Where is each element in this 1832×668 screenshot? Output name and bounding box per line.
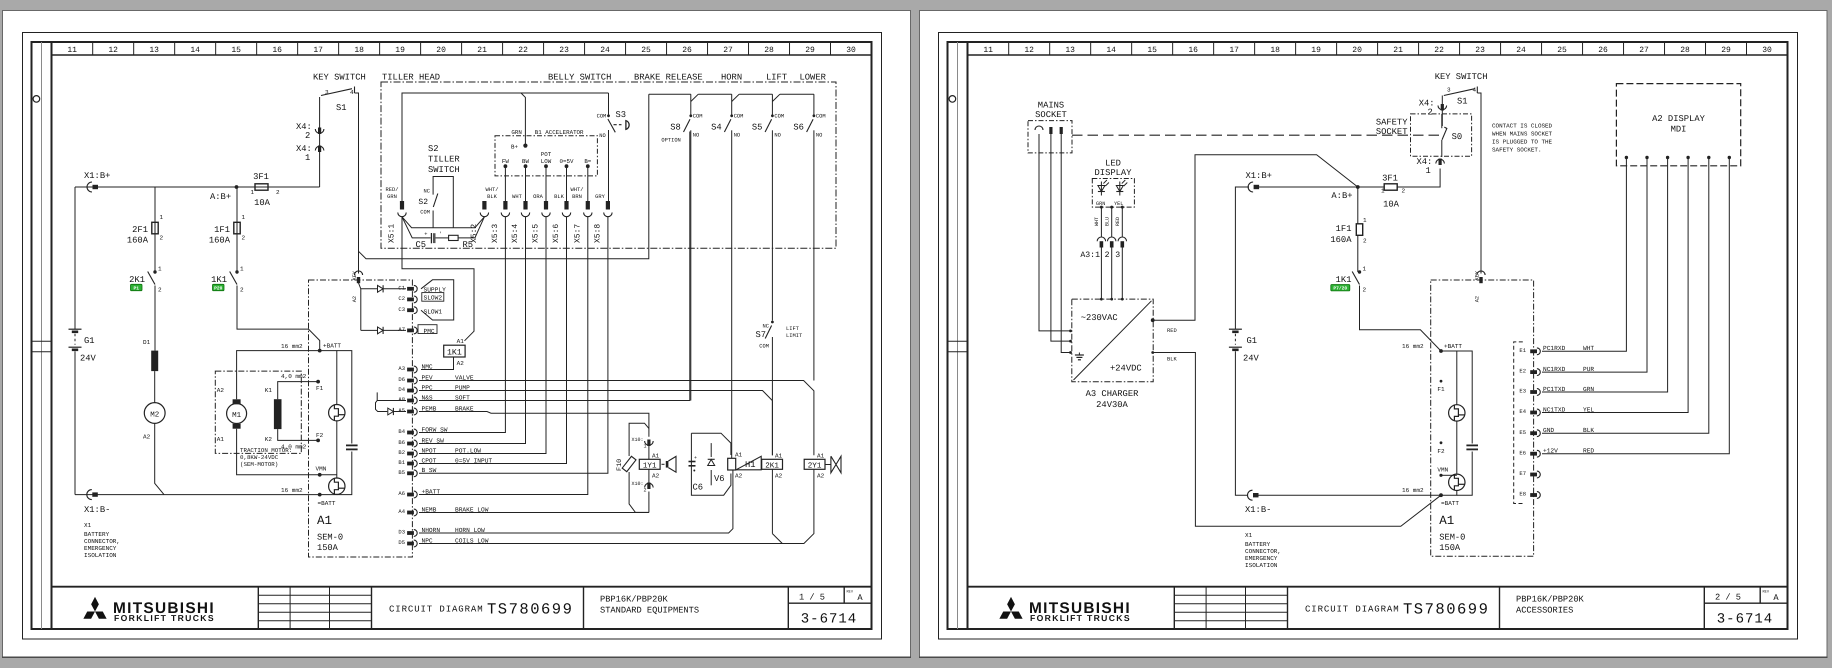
svg-text:~230VAC: ~230VAC <box>1081 313 1118 323</box>
traction motor dashed box <box>215 371 301 453</box>
label 16 mm2 (page2 bottom) <box>1402 487 1424 494</box>
svg-text:P7/20: P7/20 <box>1333 286 1347 292</box>
wire NPC coils bus <box>419 469 814 544</box>
svg-text:WHT: WHT <box>1094 217 1100 226</box>
svg-text:25: 25 <box>641 46 651 55</box>
svg-text:RED: RED <box>1115 217 1121 226</box>
svg-text:NO: NO <box>816 133 822 139</box>
label ~230VAC <box>1081 313 1118 323</box>
label A3 CHARGER 24V30A <box>1086 389 1140 410</box>
connector X4:2 (page2) <box>1419 99 1447 118</box>
svg-text:1: 1 <box>242 214 246 221</box>
svg-text:WHT/: WHT/ <box>486 187 499 193</box>
svg-text:X1:B+: X1:B+ <box>1246 171 1272 181</box>
node F1 terminal <box>316 380 324 392</box>
page 2 Mitsubishi logo <box>999 597 1131 623</box>
note X1 battery connector <box>84 522 120 559</box>
svg-text:4: 4 <box>1473 87 1477 94</box>
label M2 A2 <box>143 434 151 441</box>
dashed link mains to safety socket <box>1072 134 1441 136</box>
svg-text:D6: D6 <box>398 376 405 383</box>
node +BATT (page2) <box>1439 343 1462 353</box>
svg-text:E6: E6 <box>1519 449 1526 456</box>
wire NEMB to 1Y1 return <box>419 512 649 514</box>
svg-text:WHT: WHT <box>512 194 522 200</box>
svg-text:BRAKE RELEASE: BRAKE RELEASE <box>634 73 703 83</box>
svg-text:30: 30 <box>846 46 856 55</box>
wire B+ bus from X1:B+ to key switch riser <box>75 97 320 187</box>
svg-text:28: 28 <box>1680 46 1690 55</box>
svg-text:X5:1: X5:1 <box>388 224 397 243</box>
svg-text:A1: A1 <box>775 452 783 459</box>
wire 1K1 coil A2 to NMC <box>421 357 454 370</box>
relay coil 2K1 (solenoid) <box>762 452 783 479</box>
svg-text:A2: A2 <box>1475 296 1481 302</box>
label SAFETY SOCKET <box>1376 118 1408 138</box>
svg-text:NO: NO <box>774 133 780 139</box>
svg-text:X5:5: X5:5 <box>532 224 541 243</box>
svg-text:15: 15 <box>231 46 241 55</box>
diode V6 <box>708 443 725 485</box>
svg-text:1: 1 <box>643 444 646 450</box>
wires LED to A3 connector <box>1094 206 1124 238</box>
accelerator pins FW/BW/POT LOW/0=5V/B= <box>502 151 592 201</box>
svg-text:20: 20 <box>436 46 446 55</box>
svg-text:F1: F1 <box>1437 386 1445 393</box>
svg-text:1K1: 1K1 <box>1336 275 1352 285</box>
svg-text:KEY SWITCH: KEY SWITCH <box>313 73 366 83</box>
svg-text:D3: D3 <box>398 529 405 536</box>
svg-text:R5: R5 <box>463 240 474 250</box>
wire A6 to X5:7 <box>419 217 588 495</box>
label 16 mm2 (page2 top) <box>1402 343 1424 350</box>
svg-text:X10:: X10: <box>631 481 643 487</box>
svg-text:COM: COM <box>759 344 769 350</box>
svg-text:COM: COM <box>420 210 430 216</box>
svg-text:26: 26 <box>1598 46 1608 55</box>
transistor Q2 (page2 bottom MOSFET) <box>1449 474 1465 490</box>
controller A1 dashed box (page1) <box>309 280 413 557</box>
svg-text:A1: A1 <box>735 451 743 458</box>
node VMN <box>316 466 337 477</box>
svg-text:3F1: 3F1 <box>1382 174 1398 184</box>
svg-text:16 mm2: 16 mm2 <box>1402 487 1424 494</box>
svg-text:A8: A8 <box>398 396 405 403</box>
svg-text:D1: D1 <box>143 339 151 346</box>
page 1 title block <box>52 587 872 630</box>
svg-text:COM: COM <box>693 114 703 120</box>
connector X4:1 (page2) <box>1417 157 1445 176</box>
svg-text:LIFT: LIFT <box>766 73 787 83</box>
page 2 ruler <box>968 42 1788 55</box>
switch S7 lift limit <box>755 321 803 456</box>
svg-text:TILLER: TILLER <box>428 155 460 165</box>
svg-text:160A: 160A <box>127 236 149 246</box>
svg-text:A: A <box>1773 593 1779 603</box>
tiller head dashed box <box>381 82 836 248</box>
svg-text:1: 1 <box>1363 266 1367 273</box>
svg-text:REV: REV <box>847 589 854 594</box>
svg-text:16: 16 <box>1188 46 1198 55</box>
svg-text:': ' <box>439 232 442 238</box>
svg-text:1Y1: 1Y1 <box>643 462 657 470</box>
contactor contact 1K1 (page2) <box>1331 266 1367 294</box>
A2 display dashed box <box>1616 84 1740 166</box>
svg-text:KEY: KEY <box>1475 270 1481 280</box>
svg-text:EMERGENCY: EMERGENCY <box>1245 555 1278 562</box>
wire tiller head top bus <box>402 93 609 201</box>
svg-text:BELLY SWITCH: BELLY SWITCH <box>548 73 611 83</box>
svg-text:2: 2 <box>160 235 164 242</box>
horn H1 <box>728 451 762 479</box>
wire 1K1 to +BATT (page2) <box>1360 286 1442 352</box>
wire M1.A1 to VMN <box>237 429 320 475</box>
page 2 sheet <box>919 11 1828 658</box>
svg-text:BLK: BLK <box>554 194 564 200</box>
svg-text:13: 13 <box>1065 46 1075 55</box>
svg-text:NMC: NMC <box>422 363 433 370</box>
svg-text:S7: S7 <box>755 330 766 340</box>
svg-text:150A: 150A <box>317 543 339 553</box>
contactor contact 2K1 <box>129 266 162 294</box>
controller A1 dashed box (page2) <box>1431 280 1534 556</box>
svg-text:X1:B-: X1:B- <box>1245 505 1271 515</box>
svg-text:SLOW2: SLOW2 <box>424 295 443 302</box>
svg-text:21: 21 <box>477 46 487 55</box>
svg-text:FORKLIFT TRUCKS: FORKLIFT TRUCKS <box>114 613 215 623</box>
svg-text:B5: B5 <box>398 469 405 476</box>
svg-text:1: 1 <box>305 153 310 163</box>
svg-text:A2: A2 <box>735 473 743 480</box>
svg-text:4,0 mm2: 4,0 mm2 <box>281 444 307 451</box>
wire B2 to X5:5 <box>419 217 546 454</box>
switch S2 tiller <box>418 177 453 228</box>
battery G1 (page1) <box>69 329 97 363</box>
page 2 margin strip <box>947 42 967 629</box>
svg-text:V6: V6 <box>714 474 725 484</box>
label 16 mm2 bottom <box>281 487 303 494</box>
label GRN / B1 ACCELERATOR <box>511 129 584 136</box>
svg-text:NC: NC <box>424 189 430 195</box>
label B+ <box>511 144 518 151</box>
node A:B+ (page2) <box>1331 185 1359 201</box>
connector X1:B- (page2) <box>1245 490 1271 515</box>
svg-text:1: 1 <box>158 266 162 273</box>
svg-text:BLK: BLK <box>1167 357 1177 363</box>
svg-text:11: 11 <box>67 46 77 55</box>
svg-text:E2: E2 <box>1519 368 1526 375</box>
svg-text:H1: H1 <box>745 460 756 470</box>
wires A3 connector to charger <box>1100 248 1124 301</box>
wire B6 to X5:4 <box>419 217 526 444</box>
svg-text:A:B+: A:B+ <box>210 192 231 202</box>
svg-text:A2: A2 <box>217 387 225 394</box>
svg-text:2Y1: 2Y1 <box>808 461 822 470</box>
svg-text:VMN: VMN <box>316 466 327 473</box>
node +BATT (page1) <box>318 343 342 353</box>
svg-text:1K1: 1K1 <box>211 275 227 285</box>
wire A:B+ down (page2) <box>1357 187 1359 272</box>
svg-text:17: 17 <box>1229 46 1239 55</box>
svg-text:X1: X1 <box>1245 532 1253 539</box>
valve coil 2Y1 <box>804 452 825 479</box>
svg-text:CONTACT IS CLOSED: CONTACT IS CLOSED <box>1492 123 1553 130</box>
wire X4:1 to 3F1 (page2) <box>1397 169 1440 188</box>
diode D1 <box>143 339 158 371</box>
page 2 outer border <box>939 33 1798 640</box>
svg-text:TS780699: TS780699 <box>1403 601 1489 619</box>
svg-text:24V30A: 24V30A <box>1096 400 1128 410</box>
svg-text:160A: 160A <box>209 236 231 246</box>
svg-text:2: 2 <box>1363 238 1367 245</box>
connector pins E1-E8 <box>1519 345 1594 498</box>
svg-text:3: 3 <box>1115 251 1120 260</box>
svg-text:24: 24 <box>600 46 610 55</box>
svg-text:2F1: 2F1 <box>132 225 148 235</box>
wire S8 leg <box>690 132 692 401</box>
wire 1F1 branch <box>237 187 320 351</box>
svg-text:2: 2 <box>242 235 246 242</box>
svg-text:A:B+: A:B+ <box>1331 191 1352 201</box>
svg-text:A2: A2 <box>652 472 660 479</box>
svg-text:21: 21 <box>1393 46 1403 55</box>
svg-text:2: 2 <box>240 287 244 294</box>
note X1 battery connector (page2) <box>1245 532 1281 569</box>
svg-text:1F1: 1F1 <box>1336 224 1352 234</box>
svg-text:B1: B1 <box>398 459 405 466</box>
svg-text:BATTERY: BATTERY <box>84 531 110 538</box>
diode to C1 <box>378 285 384 292</box>
svg-text:GRN: GRN <box>387 194 397 200</box>
connector X4:1 (page1) <box>296 144 324 163</box>
controller A1 pin row (page1) <box>398 284 492 547</box>
svg-text:A3: A3 <box>398 365 405 372</box>
LED symbols <box>1096 180 1127 207</box>
page 1 Mitsubishi logo <box>83 597 215 623</box>
svg-text:COM: COM <box>734 114 744 120</box>
wire diode row C1 <box>361 288 406 290</box>
svg-text:14: 14 <box>1106 46 1116 55</box>
wire diode row A7 <box>361 329 406 331</box>
svg-text:14: 14 <box>190 46 200 55</box>
svg-text:2: 2 <box>158 287 162 294</box>
connector X1:B- <box>84 490 110 515</box>
transistor Q1 (page2 top MOSFET) <box>1449 405 1465 421</box>
svg-text:23: 23 <box>1475 46 1485 55</box>
label K1 <box>265 387 273 394</box>
wire X1:B+ bus (page2) <box>1235 187 1357 329</box>
field winding K1-K2 <box>274 399 282 429</box>
section labels top (page1) <box>313 73 827 83</box>
svg-text:M1: M1 <box>232 412 242 420</box>
node F2 terminal <box>316 432 324 442</box>
svg-text:16 mm2: 16 mm2 <box>1402 343 1424 350</box>
svg-text:F1: F1 <box>316 385 324 392</box>
svg-text:+BATT: +BATT <box>1444 343 1462 350</box>
ground symbol in charger <box>1075 353 1084 360</box>
label +24VDC <box>1110 364 1142 374</box>
svg-text:A2: A2 <box>775 473 783 480</box>
svg-text:KEY SWITCH: KEY SWITCH <box>1435 72 1488 82</box>
svg-text:18: 18 <box>1270 46 1280 55</box>
relay coil 1K1 <box>444 338 465 367</box>
svg-text:2: 2 <box>276 189 280 196</box>
svg-text:DISPLAY: DISPLAY <box>1095 168 1133 178</box>
svg-text:(SEM-MOTOR): (SEM-MOTOR) <box>240 461 278 468</box>
svg-text:S1: S1 <box>1457 97 1468 107</box>
svg-text:27: 27 <box>723 46 733 55</box>
svg-text:26: 26 <box>682 46 692 55</box>
wire colors above X5 <box>386 187 606 200</box>
svg-text:4,0 mm2: 4,0 mm2 <box>281 373 307 380</box>
svg-text:17: 17 <box>313 46 323 55</box>
svg-text:S4: S4 <box>711 123 722 133</box>
mains socket dashed box <box>1028 121 1072 153</box>
svg-text:C5: C5 <box>416 240 427 250</box>
page 2 drawing frame <box>948 42 1788 629</box>
svg-text:C1: C1 <box>398 284 405 291</box>
wire M1.A2 to +BATT <box>237 351 321 400</box>
label S2 TILLER SWITCH <box>428 144 460 175</box>
svg-text:CIRCUIT DIAGRAM: CIRCUIT DIAGRAM <box>389 605 484 615</box>
svg-text:A2: A2 <box>457 360 465 367</box>
charger A3 dashed box <box>1072 299 1153 382</box>
mains socket contacts <box>1035 126 1063 134</box>
svg-text:P20: P20 <box>214 285 223 291</box>
svg-text:A3 CHARGER: A3 CHARGER <box>1086 389 1140 399</box>
svg-text:POT: POT <box>541 151 552 158</box>
connector X1:B+ <box>84 171 110 192</box>
connector KEY into A1 (page1) <box>352 270 363 302</box>
svg-text:COM: COM <box>816 114 826 120</box>
svg-text:12: 12 <box>108 46 118 55</box>
label A1 (page2) <box>1439 514 1454 528</box>
page 2 title text <box>1305 589 1779 627</box>
svg-text:S6: S6 <box>793 123 804 133</box>
connector X10:1 <box>631 437 653 450</box>
svg-text:FW: FW <box>502 158 509 165</box>
fuse 2F1 <box>127 214 164 246</box>
svg-text:1: 1 <box>240 266 244 273</box>
svg-text:SEM-0: SEM-0 <box>317 533 343 543</box>
capacitor (page2) <box>1466 445 1478 449</box>
svg-text:A5: A5 <box>398 407 405 414</box>
svg-text:3: 3 <box>325 89 329 96</box>
svg-text:A2 DISPLAY: A2 DISPLAY <box>1652 114 1706 124</box>
wire MOSFET chain (page2) <box>1441 351 1472 495</box>
key switch S1 (page2) <box>1444 87 1478 107</box>
svg-text:M2: M2 <box>150 410 159 419</box>
svg-text:A2: A2 <box>817 473 825 480</box>
svg-text:E8: E8 <box>1519 491 1526 498</box>
fuse 3F1 <box>251 172 281 208</box>
node VMN (page2) <box>1437 466 1456 477</box>
wire KEY riser to belly-switch bus feeder <box>359 94 649 259</box>
svg-text:SWITCH: SWITCH <box>428 165 460 175</box>
page 1 sheet <box>2 11 911 658</box>
svg-text:EMERGENCY: EMERGENCY <box>84 545 117 552</box>
wire KEY pellet to diode rows <box>359 283 361 330</box>
svg-text:G1: G1 <box>1247 336 1258 346</box>
connectors X5:1-X5:8 <box>388 201 612 243</box>
wire PEMB to 1Y1 <box>419 412 649 437</box>
wire accelerator B+ drop <box>521 93 528 148</box>
svg-text:D4: D4 <box>398 386 405 393</box>
wire PPC to 2K1 <box>419 391 772 401</box>
suppressor network outline C6 <box>691 433 731 495</box>
svg-text:1 / 5: 1 / 5 <box>799 593 825 603</box>
svg-text:E4: E4 <box>1519 408 1526 415</box>
svg-text:RED: RED <box>1167 328 1177 334</box>
svg-text:X1: X1 <box>84 522 92 529</box>
svg-text:KEY: KEY <box>352 270 358 280</box>
svg-text:STANDARD EQUIPMENTS: STANDARD EQUIPMENTS <box>600 606 699 616</box>
svg-text:150A: 150A <box>1439 543 1461 553</box>
svg-text:23: 23 <box>559 46 569 55</box>
svg-text:K1: K1 <box>265 387 273 394</box>
svg-text:BATTERY: BATTERY <box>1245 541 1271 548</box>
node A:B+ <box>210 185 238 202</box>
svg-text:C3: C3 <box>398 306 405 313</box>
svg-text:E5: E5 <box>1519 429 1526 436</box>
label MAINS SOCKET <box>1035 101 1067 121</box>
wire G1 to X1:B- (page2) <box>1235 351 1248 495</box>
fuse 3F1 (page2) <box>1381 174 1406 210</box>
svg-text:2: 2 <box>1363 287 1367 294</box>
svg-text:2: 2 <box>1428 108 1433 118</box>
wire B1 to X5:6 <box>419 217 567 464</box>
svg-text:+24VDC: +24VDC <box>1110 364 1142 374</box>
svg-text:A1: A1 <box>317 514 332 528</box>
svg-text:=BATT: =BATT <box>1441 500 1459 507</box>
fuse 1F1 <box>209 214 246 246</box>
solenoid 1Y1 <box>639 446 660 483</box>
LED display box <box>1092 179 1134 208</box>
svg-text:4: 4 <box>350 89 354 96</box>
accelerator B1 dashed box <box>495 136 597 176</box>
svg-text:A7: A7 <box>398 326 405 333</box>
svg-text:A1: A1 <box>652 452 660 459</box>
svg-text:SOCKET: SOCKET <box>1035 110 1067 120</box>
svg-text:28: 28 <box>764 46 774 55</box>
svg-text:3: 3 <box>1447 87 1451 94</box>
svg-text:LIMIT: LIMIT <box>786 333 803 339</box>
svg-text:F10: F10 <box>616 459 624 471</box>
svg-text:IS PLUGGED TO THE: IS PLUGGED TO THE <box>1492 139 1553 146</box>
svg-text:TS780699: TS780699 <box>487 601 573 619</box>
svg-text:F2: F2 <box>316 432 324 439</box>
svg-text:X5:4: X5:4 <box>511 224 520 243</box>
svg-text:E3: E3 <box>1519 388 1526 395</box>
switch S0 <box>1442 114 1462 157</box>
page 1 title text <box>389 589 863 627</box>
svg-text:16: 16 <box>272 46 282 55</box>
wire PEV to 2Y1 <box>419 381 814 456</box>
svg-text:S0: S0 <box>1452 132 1463 142</box>
svg-text:S2: S2 <box>418 198 428 207</box>
svg-text:ACCESSORIES: ACCESSORIES <box>1516 606 1573 616</box>
svg-text:CONNECTOR,: CONNECTOR, <box>1245 548 1281 555</box>
svg-text:S2: S2 <box>428 144 439 154</box>
E connector bracket <box>1514 342 1523 504</box>
svg-text:2K1: 2K1 <box>765 461 779 470</box>
svg-text:WHEN MAINS SOCKET: WHEN MAINS SOCKET <box>1492 131 1553 138</box>
svg-text:A3:1: A3:1 <box>1080 251 1100 260</box>
svg-text:A1: A1 <box>457 338 465 345</box>
svg-text:E7: E7 <box>1519 470 1526 477</box>
svg-text:CONNECTOR,: CONNECTOR, <box>84 538 120 545</box>
svg-text:ISOLATION: ISOLATION <box>84 552 117 559</box>
